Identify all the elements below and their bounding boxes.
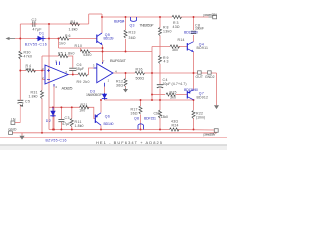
node dot C2 row / zener column [48,23,50,25]
wire below R12 to ground sym [125,87,127,89]
capacitor C6 [69,63,84,71]
node dot top rail / bypass column [159,16,161,18]
svg-text:1.8k0: 1.8k0 [69,28,78,32]
svg-text:36Ω: 36Ω [131,111,138,115]
svg-text:AD825: AD825 [62,85,74,90]
resistor R1 [69,20,80,32]
svg-text:C2: C2 [32,18,37,22]
svg-text:GND2: GND2 [205,75,215,79]
svg-text:C5: C5 [25,100,30,104]
svg-text:3: 3 [93,64,95,68]
wire top-left row y24: C2/R1 row from corner to jog [20,23,88,25]
svg-text:C10: C10 [154,112,160,116]
svg-text:1k0: 1k0 [79,108,85,112]
svg-text:BD139: BD139 [104,37,114,41]
node dot rail / bypass column [159,129,161,131]
wire top rail right of R3 [181,16,194,18]
resistor R8 [159,26,172,36]
svg-text:Q6: Q6 [105,115,110,119]
node dot zener row / left column [19,38,21,40]
svg-text:Q8: Q8 [134,116,139,120]
node dot rail / R17 [140,129,142,131]
svg-text:(10m): (10m) [196,116,205,120]
svg-text:BD911: BD911 [197,46,209,50]
resistor R18 [154,110,169,119]
svg-text:43Ω: 43Ω [173,25,180,29]
wire R15 row y94.5 [152,94,165,96]
wire after R9 up to buf input [88,68,97,75]
wire jack right stub [212,72,217,74]
resistor R31 [29,91,44,99]
svg-text:HE1 - BUF634T + AD825: HE1 - BUF634T + AD825 [96,140,163,145]
svg-text:10µF: 10µF [163,82,171,86]
node dot top rail / Q5 collector [101,16,103,18]
resistor R24 [170,120,180,131]
svg-text:R16: R16 [136,68,143,72]
port GND [8,128,17,135]
wire bottom rail right of R24 [178,129,215,132]
wire regulated row y48 x58.5-102.5 [59,47,103,49]
wire base feed column x152 y46.5-100 [151,47,153,101]
port power28V bottom [204,129,219,137]
svg-text:power28V: power28V [204,13,218,17]
port IN arrow left [6,37,16,40]
resistor R30 [19,51,32,60]
transistor Q4 [187,42,208,52]
wire left input column x20.3 y24-122.5 [19,24,21,51]
capacitor C1 [58,116,70,126]
wire Q5 collector vertical x102 y14-33 [101,14,103,33]
svg-text:R13: R13 [129,31,136,35]
node dot output bus / base feed column [151,72,153,74]
svg-text:3k0: 3k0 [172,48,178,52]
wire jack middle stub [202,72,208,74]
wire IN port to column [15,122,20,124]
svg-text:C3: C3 [65,116,70,120]
wire R13 bottom to mid row [125,39,127,52]
svg-text:BD912: BD912 [197,95,209,99]
wire R12 drop from output bus [125,73,127,79]
node dot output bus / Q4Q7 column [193,72,195,74]
ground symbol under R12 [123,88,128,92]
svg-text:1k0: 1k0 [25,67,31,71]
svg-text:BD140: BD140 [104,122,114,126]
wire R11 drop x71.8 [71,107,73,118]
transistor Q5 BD139 [97,33,114,45]
wire bias row y107.3 left [49,106,80,108]
node dot zener row / zener column [48,38,50,40]
wire below R31 to GND row [41,99,43,133]
svg-text:R1: R1 [71,20,76,24]
wire jog vertical x88.7 y14-24 [88,14,90,24]
node dot mid row / emitter column [102,51,104,53]
svg-text:BUF634: BUF634 [114,19,125,23]
svg-text:TN6905GP: TN6905GP [140,23,155,27]
wire below R30 [19,59,21,100]
wire Q7 emitter up to output bus [193,73,195,90]
wire feedback vertical x42 y56-70.5 [41,56,43,71]
diode D2 zener [46,107,67,142]
sheet border bottom pink line [0,137,227,139]
node dot bias row / R15 branch [151,94,153,96]
wire R14 row y46.5 [152,46,170,48]
svg-text:power28V: power28V [204,132,217,136]
node dot rail / D2 column [52,129,54,131]
wire noninv input stub [42,71,45,80]
wire stub to power port top [194,16,209,18]
node dot R4 row / left column [19,70,21,72]
resistor R13 [124,30,136,40]
node dot Q6 emitter / bias row [100,99,102,101]
wire Q4 emitter down to output bus [193,52,195,74]
svg-text:BD139/40: BD139/40 [184,88,198,92]
svg-text:BDF151: BDF151 [144,116,156,120]
wire output bus right of R16 [144,72,194,74]
wire below R18 to rail [159,118,161,130]
svg-text:43k0: 43k0 [83,53,92,57]
svg-text:R10: R10 [75,44,83,48]
ground symbol left [19,136,24,140]
svg-text:OUT: OUT [196,75,204,79]
svg-text:BZV55-C16: BZV55-C16 [25,42,47,46]
wire Q6 emitter up x101 [100,100,102,113]
wire below C4 to y100 row [159,89,161,111]
resistor R11 [70,119,83,128]
node dot mid row / R13 column [125,51,127,53]
resistor R6 [59,34,71,45]
capacitor C4 [157,78,187,88]
node dot rail / opamp V- [53,129,55,131]
wire zener to V+ row vertical x58.5 [58,39,60,49]
node dot output node C6 [72,74,74,76]
node dot bias wire / C3 [60,106,62,108]
wire R4 right to opamp [33,70,46,72]
port power28V top [204,13,218,19]
wire Q7 collector down x193.5 [193,100,195,111]
resistor R9 [77,73,90,84]
node dot bias row / base feed column [151,99,153,101]
wire mid row right of R10 [90,51,152,53]
svg-text:3k0: 3k0 [170,95,176,99]
diode D1 zener [25,31,47,46]
resistor R14 [170,38,185,52]
svg-text:4: 4 [55,85,57,89]
wire gnd stub under GND row [21,133,23,136]
svg-text:D1: D1 [39,31,44,35]
svg-text:R15: R15 [170,91,177,95]
resistor R5 [58,51,75,57]
svg-text:R21: R21 [81,103,88,107]
svg-text:47µF: 47µF [62,122,71,126]
svg-text:R14: R14 [178,38,185,42]
wire opamp out y74.5 [68,74,78,76]
wire D2 bottom to rail [52,117,54,130]
svg-text:43: 43 [164,60,169,64]
wire zener row y38.5 D1 to R6 to Q5 base [46,38,60,40]
polarity glyph under C5 [20,104,24,107]
node dot R4 row / feedback column [41,70,43,72]
node dot bias wire / D2 [52,106,54,108]
resistor R4 [25,64,36,72]
wire zener column x49 y24-107.3 [48,24,50,107]
node dot rail / R11 column [71,129,73,131]
resistor R9b [159,56,169,64]
wire R4 row y70.5 [20,70,26,72]
wire R31 column x42 [41,80,43,91]
wire bias row y100 x104.5-193.5 [105,99,194,101]
svg-text:D2: D2 [46,119,51,123]
node dot output bus / R12 drop [125,72,127,74]
svg-text:500Ω: 500Ω [136,76,145,80]
wire Q6 collector down x101 [100,126,102,130]
resistor R12 [116,79,127,88]
svg-text:13k0: 13k0 [161,115,169,119]
resistor R3 [172,15,182,29]
wire C3 drop x61.4 [60,107,62,119]
jack port GND2 [205,71,215,79]
svg-text:1.8k0: 1.8k0 [75,124,84,128]
node dot top rail / R13 column [125,16,127,18]
wire bias row right of R21 corner to Q6 base [87,107,95,118]
wire below C5 to IN [19,105,21,123]
wire jog horizontal y14 x88.7-102 [89,13,102,15]
thermal coupler Q8 bottom [134,116,156,129]
wire below C3 to rail [60,122,62,130]
op-amp U1 AD825 [42,60,73,91]
wire R10 jog x80.5 y48-51.5 [80,48,82,52]
svg-text:13k0: 13k0 [163,30,172,34]
node dot bias row / Q7 column [193,99,195,101]
svg-text:1N6905GP: 1N6905GP [86,93,103,97]
wire R13/R12 column x125.5 rail to R13 [125,17,127,30]
svg-text:47k0: 47k0 [24,55,33,59]
node dot reg row / emitter column [102,47,104,49]
wire R14 to Q4 base [179,46,188,48]
transistor Q6 BD140 [95,113,113,126]
svg-text:1.8k0: 1.8k0 [29,95,38,99]
node dot GND row / R31 column [41,132,43,134]
svg-text:Q3: Q3 [130,23,135,27]
node dot rail / C3 column [60,129,62,131]
capacitor C2 [31,18,42,32]
svg-text:R6: R6 [65,34,71,38]
wire output bus y73 apex to Q4/Q7 column [113,72,135,74]
svg-text:36Ω: 36Ω [129,36,136,40]
wire zener column to rail x49 [48,107,50,129]
wire zener row y38.5 left [15,38,37,40]
resistor R17 [131,106,143,115]
wire output stub to jack [194,72,198,74]
node dot rail / Q6 collector [100,129,102,131]
wire below R22 to rail [193,119,195,130]
svg-text:R5 1.8k0: R5 1.8k0 [58,51,75,55]
wire Q5 emitter/buf pin7 column x102.5 y45-63.7 [102,45,104,64]
wire after R6 to Q5 base [69,38,97,40]
svg-text:BZV55-C16: BZV55-C16 [46,138,67,142]
wire buf pin4 column x104.5 y83-93 [104,87,106,94]
wire opamp V- column x54 y84-129.5 [53,84,55,130]
jack port OUT [196,71,204,79]
wire GND row y132.8 [13,132,218,134]
window bottom bar [0,145,227,150]
wire below R11 to rail [71,127,73,130]
svg-text:(4.7+4.7): (4.7+4.7) [172,82,187,86]
svg-text:36Ω: 36Ω [116,83,123,87]
wire jack ground column x216.5 y73-105.3 [216,73,218,105]
wire C6 bottom to output node [72,71,74,75]
svg-text:IN: IN [11,117,16,121]
diode D3 [86,89,107,99]
wire below R17 [140,115,142,130]
resistor R21 [79,103,89,113]
resistor R22 load [192,111,205,120]
op-amp U2 BUF634T [93,58,127,87]
resistor R16 [135,68,145,81]
svg-text:R9 2k0: R9 2k0 [77,80,90,84]
transistor Q7 [187,90,208,100]
capacitor C5 [18,100,31,104]
node dot bias row / R17 column [140,99,142,101]
wire bottom rail y129.5 [49,129,170,131]
capacitor C8 [191,23,204,33]
svg-text:1: 1 [108,79,110,83]
ground symbol jack [214,105,219,109]
node dot zener wire / V+ drop [58,38,60,40]
wire feedback row y56 [42,55,59,57]
svg-text:BUF634T: BUF634T [110,58,127,63]
svg-text:6: 6 [66,70,68,74]
svg-text:15µF: 15µF [76,67,84,71]
svg-text:GND: GND [8,128,17,132]
node dot bias row / bypass column [159,99,161,101]
thermal coupler Q3 top [130,17,155,27]
node dot top rail / Q4 column [193,16,195,18]
wire top rail y17 x102-193.5 [102,16,172,18]
svg-text:7: 7 [103,59,105,63]
resistor R15 [166,91,177,100]
wire below C8 to Q4 [193,35,195,42]
svg-text:1k0: 1k0 [59,41,66,45]
resistor R10 [75,44,92,57]
port IN [11,117,16,124]
wire D3 bottom to y100 row [104,99,106,100]
wire Q4 collector column x193.5 y17-41.5 [193,17,195,30]
wire right bypass column x160 rail down to R8 [159,17,161,28]
svg-text:BD139/40: BD139/40 [184,30,198,34]
wire between R9b and C4 [159,64,161,84]
wire feedback right of R5 to C6 corner [68,56,73,68]
svg-text:R24: R24 [172,124,179,128]
wire between R8 and R9b [159,36,161,56]
wire R15 to Q7 base [176,94,187,96]
node dot bias wire / R11 [71,106,73,108]
node dot rail / Q7 column [193,129,195,131]
wire R17 column x140.5 y100-129.5 [140,100,142,106]
